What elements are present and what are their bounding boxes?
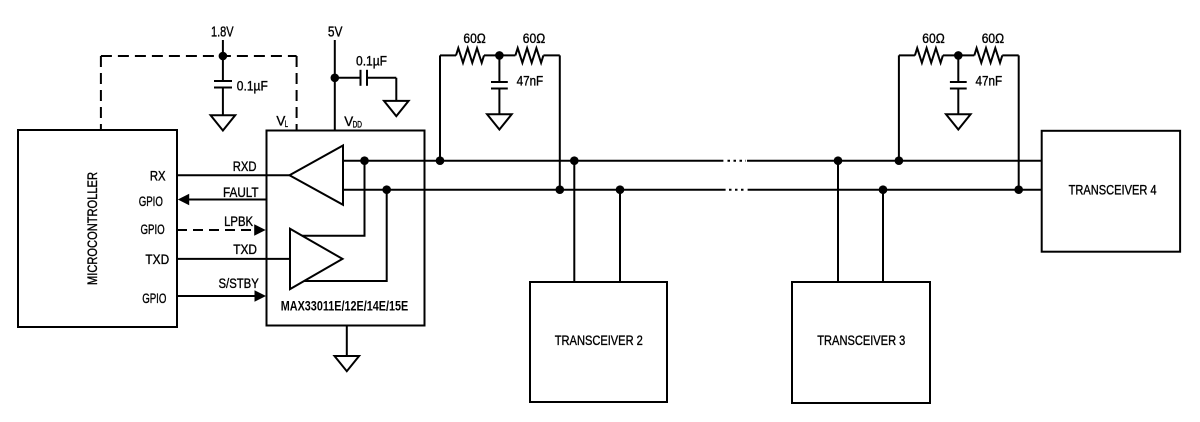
svg-text:GPIO: GPIO — [139, 194, 163, 209]
svg-text:TRANSCEIVER 4: TRANSCEIVER 4 — [1069, 183, 1157, 198]
svg-text:MICROCONTROLLER: MICROCONTROLLER — [85, 172, 100, 285]
svg-text:FAULT: FAULT — [223, 185, 259, 200]
svg-text:60Ω: 60Ω — [463, 31, 485, 46]
svg-text:GPIO: GPIO — [141, 222, 165, 237]
svg-text:0.1µF: 0.1µF — [356, 53, 387, 68]
svg-text:60Ω: 60Ω — [982, 31, 1004, 46]
svg-text:5V: 5V — [328, 23, 343, 40]
svg-text:0.1µF: 0.1µF — [237, 79, 268, 94]
svg-text:S/STBY: S/STBY — [219, 276, 259, 291]
svg-text:TRANSCEIVER 2: TRANSCEIVER 2 — [555, 333, 643, 348]
svg-text:47nF: 47nF — [517, 74, 544, 89]
svg-text:L: L — [285, 119, 288, 129]
svg-text:TXD: TXD — [233, 242, 257, 257]
svg-text:GPIO: GPIO — [142, 291, 166, 306]
svg-text:TXD: TXD — [145, 252, 169, 267]
svg-text:60Ω: 60Ω — [922, 31, 944, 46]
svg-text:DD: DD — [353, 119, 363, 129]
svg-text:RX: RX — [150, 169, 166, 184]
svg-text:MAX33011E/12E/14E/15E: MAX33011E/12E/14E/15E — [281, 298, 409, 313]
svg-text:47nF: 47nF — [976, 74, 1003, 89]
svg-text:60Ω: 60Ω — [523, 31, 545, 46]
svg-text:RXD: RXD — [233, 159, 257, 174]
svg-text:TRANSCEIVER 3: TRANSCEIVER 3 — [817, 333, 905, 348]
svg-text:LPBK: LPBK — [224, 214, 253, 229]
svg-text:1.8V: 1.8V — [211, 23, 234, 40]
